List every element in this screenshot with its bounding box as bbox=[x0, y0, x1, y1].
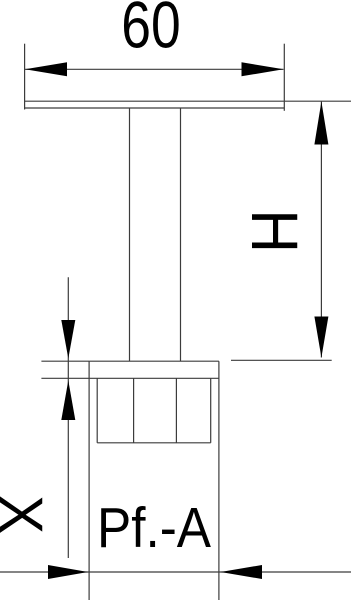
dimension text 60 bbox=[121, 0, 180, 62]
svg-text:60: 60 bbox=[121, 0, 180, 62]
arrowhead bottom of H dimension bbox=[314, 317, 328, 358]
arrowhead pointing right to bracket left wall bbox=[48, 565, 88, 579]
arrowhead left of 60 dimension bbox=[25, 62, 67, 76]
arrowhead pointing down to bracket top bbox=[61, 320, 75, 359]
extension line bottom of H dimension bbox=[231, 359, 332, 361]
thickness dimension line (vertical, arrows outside pointing inward) bbox=[67, 277, 69, 558]
svg-text:X: X bbox=[0, 495, 55, 534]
svg-text:H: H bbox=[237, 209, 310, 253]
arrowhead top of H dimension bbox=[314, 102, 328, 145]
thickness dimension extension line bottom (extends left from flange bottom) bbox=[41, 377, 89, 379]
extension line left of 60 dimension / top plate left edge bbox=[24, 44, 26, 110]
top plate top line (extends right as H extension line) bbox=[25, 100, 351, 102]
extension line right of 60 dimension / top plate right edge bbox=[283, 44, 285, 111]
inner box divider 2 bbox=[175, 378, 177, 443]
bracket right wall bbox=[218, 361, 220, 600]
bracket flange top line bbox=[89, 360, 219, 362]
svg-text:Pf.-A: Pf.-A bbox=[97, 497, 212, 560]
inner box divider 1 bbox=[133, 378, 135, 443]
bracket flange bottom line bbox=[89, 377, 219, 379]
arrowhead pointing up to flange bottom bbox=[61, 381, 75, 421]
top plate bottom line bbox=[25, 107, 285, 109]
inner box left line bbox=[96, 378, 98, 443]
arrowhead right of 60 dimension bbox=[242, 62, 284, 76]
dimension line 60 bbox=[25, 68, 284, 70]
inner box right line bbox=[210, 378, 212, 443]
dimension text X (rotated) bbox=[0, 495, 55, 534]
bottom width dimension line bbox=[0, 571, 351, 573]
column left line bbox=[129, 108, 131, 361]
dimension text H (rotated) bbox=[237, 209, 310, 253]
thickness dimension extension line top (extends left from bracket top) bbox=[41, 360, 89, 362]
dimension line H bbox=[320, 102, 322, 358]
arrowhead pointing left to bracket right wall bbox=[221, 565, 263, 579]
inner box bottom line bbox=[97, 442, 211, 444]
column right line bbox=[180, 108, 182, 361]
bracket left wall bbox=[88, 361, 90, 600]
